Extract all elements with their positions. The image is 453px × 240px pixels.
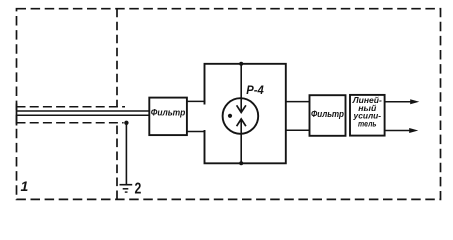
wire U1 to arrester loop, bottom (187, 131, 205, 133)
junction dot top (239, 62, 243, 66)
cable shield bottom (dashed) (17, 122, 124, 124)
filter U1 box (149, 98, 187, 136)
svg-text:Р-4: Р-4 (246, 83, 264, 97)
svg-text:Фильтр: Фильтр (151, 107, 186, 117)
cable shield top (dashed) (17, 106, 126, 108)
screen wall of room 1 (dashed vertical, upper part) (116, 9, 118, 107)
output arrowhead bottom (409, 128, 418, 133)
svg-text:2: 2 (135, 181, 142, 198)
ground wire (125, 123, 127, 184)
junction dot bottom (239, 161, 243, 165)
wire U1 to arrester loop, top (187, 100, 205, 102)
output wire top (385, 101, 411, 103)
filter U2 box (310, 95, 346, 136)
arrester top electrode (shaft) (240, 64, 242, 113)
arrester F1 envelope circle (223, 98, 259, 134)
svg-text:тель: тель (358, 119, 377, 128)
ground symbol (120, 185, 133, 192)
arrester bottom electrode arrowhead (237, 119, 246, 126)
arrester top electrode arrowhead (237, 105, 246, 112)
junction dot (shield to ground) (124, 121, 128, 125)
linear amplifier U3 label (4 lines) (352, 96, 382, 128)
outer boundary left-edge solid segment at cable pass-through (16, 104, 18, 126)
wire arrester loop to filter U2, bottom (286, 129, 310, 131)
arrester loop rectangle (left edge open between feed points) (205, 64, 286, 164)
feeder wire upper (17, 110, 150, 112)
svg-text:1: 1 (21, 178, 29, 194)
gas-filling dot inside arrester (228, 114, 232, 118)
outer screened enclosure boundary (dashed frame) (17, 9, 441, 200)
feeder wire lower (17, 114, 150, 116)
output wire bottom (385, 130, 410, 132)
arrester bottom electrode (shaft) (240, 119, 242, 163)
screen wall of room 1 (dashed vertical, lower part) (116, 126, 118, 200)
svg-text:Фильтр: Фильтр (311, 109, 344, 119)
linear amplifier U3 box (350, 95, 385, 136)
output arrowhead top (410, 99, 419, 104)
wire arrester loop to filter U2, top (286, 101, 310, 103)
